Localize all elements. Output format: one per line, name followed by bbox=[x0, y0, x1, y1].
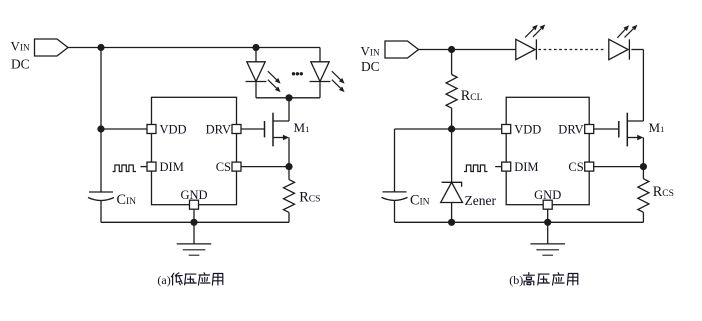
wire VIN to LED1 anode (right) bbox=[419, 49, 516, 51]
wire node B to RCL bbox=[451, 50, 453, 75]
svg-text:(b): (b) bbox=[509, 273, 523, 287]
PWM dimming signal symbol (right) bbox=[464, 165, 488, 172]
wire down to M1 drain (right) bbox=[642, 50, 644, 122]
zener DZ cathode bar bbox=[442, 182, 462, 187]
transistor M1 (left) bbox=[272, 113, 274, 147]
junction ground node (left) bbox=[190, 219, 197, 226]
svg-text:DRV: DRV bbox=[206, 123, 231, 137]
wire to VDD pin (left) bbox=[101, 128, 152, 130]
wire to RCS (right) bbox=[642, 167, 644, 179]
IC U1 (left controller) bbox=[152, 97, 237, 204]
pin GND (right IC) bbox=[543, 200, 552, 209]
resistor RCL bbox=[446, 75, 457, 109]
resistor RCS (right) bbox=[638, 179, 649, 213]
LED D3 (right string) bbox=[516, 39, 535, 59]
caption char 压 (a) bbox=[185, 274, 197, 285]
wire M1 drain lead (left) bbox=[288, 98, 290, 121]
junction ground node (right) bbox=[544, 219, 551, 226]
pin GND (left IC) bbox=[190, 200, 199, 209]
caption char 应 (a) bbox=[198, 273, 210, 285]
light arrow 1 of D3 bbox=[525, 29, 534, 38]
LED D4 (right string) bbox=[609, 39, 628, 59]
junction CS node (left) bbox=[285, 163, 292, 170]
wire down to CIN (right) bbox=[394, 129, 396, 192]
caption char 压 (b) bbox=[538, 274, 550, 285]
wire CIN to ground rail (left) bbox=[100, 201, 102, 222]
wire CS to source node (left) bbox=[241, 166, 289, 168]
svg-text:DIM: DIM bbox=[514, 160, 538, 174]
dashed wire LED chain bbox=[538, 49, 606, 51]
wire zener anode to rail bbox=[451, 203, 453, 223]
svg-text:DRV: DRV bbox=[558, 123, 583, 137]
svg-text:VDD: VDD bbox=[160, 123, 187, 137]
light arrow 1 of D1 bbox=[268, 71, 277, 80]
svg-text:DC: DC bbox=[361, 59, 380, 74]
zener DZ triangle bbox=[441, 182, 463, 202]
junction zener to rail bbox=[448, 219, 455, 226]
ground symbol (left) bbox=[193, 222, 195, 244]
junction CS node (right) bbox=[640, 163, 647, 170]
LED D2 (left string) bbox=[319, 48, 321, 62]
PWM dimming signal symbol (left) bbox=[113, 165, 137, 172]
capacitor CIN (right) bbox=[383, 191, 407, 193]
pin VDD (right IC) bbox=[502, 125, 511, 134]
svg-text:(a): (a) bbox=[157, 273, 170, 287]
caption char 用 (a) bbox=[212, 274, 222, 286]
wire LED cathode bus (left) bbox=[256, 97, 320, 99]
wire VDD node to zener cathode bbox=[451, 129, 453, 182]
resistor RCS (left) bbox=[284, 180, 295, 213]
light arrow 2 of D2 bbox=[332, 80, 341, 89]
capacitor CIN (left) bbox=[89, 191, 113, 193]
caption char 应 (b) bbox=[553, 273, 565, 285]
LED D1 (left string) bbox=[255, 48, 257, 62]
input connector VIN DC (right) bbox=[385, 41, 419, 58]
wire VIN to node A bbox=[68, 47, 101, 49]
wire stub to DIM (left) bbox=[141, 166, 148, 168]
svg-text:VDD: VDD bbox=[514, 123, 541, 137]
wire stub to DIM (right) bbox=[495, 166, 502, 168]
junction LED1 anode (left) bbox=[252, 44, 259, 51]
wire M1 source down (right) bbox=[642, 138, 644, 167]
wire left branch down to CIN bbox=[100, 48, 102, 193]
junction LED bus to M1 drain (left) bbox=[285, 94, 292, 101]
IC U2 (right controller) bbox=[506, 97, 589, 204]
wire M1 source down (left) bbox=[288, 138, 290, 167]
svg-text:CS: CS bbox=[568, 160, 583, 174]
pin VDD (left IC) bbox=[147, 125, 156, 134]
junction node B (right input) bbox=[448, 46, 455, 53]
pin DIM (right IC) bbox=[502, 162, 511, 171]
svg-text:Zener: Zener bbox=[465, 193, 497, 208]
wire top rail (left) bbox=[101, 47, 320, 49]
light arrow 2 of D4 bbox=[625, 29, 634, 38]
wire CIN to rail (right) bbox=[394, 201, 396, 222]
pin CS (right IC) bbox=[585, 162, 594, 171]
light arrow 2 of D1 bbox=[268, 80, 277, 89]
pin DIM (left IC) bbox=[147, 162, 156, 171]
transistor M1 (right) bbox=[626, 113, 628, 147]
svg-text:DIM: DIM bbox=[160, 160, 184, 174]
wire DRV to M1 gate (left) bbox=[241, 128, 265, 130]
wire LED4 cathode out bbox=[631, 49, 643, 51]
wire VDD node rail (right) bbox=[395, 128, 507, 130]
wire DRV to M1 gate (right) bbox=[594, 128, 619, 130]
pin DRV (left IC) bbox=[232, 125, 241, 134]
wire to RCS (left) bbox=[288, 167, 290, 180]
caption char 用 (b) bbox=[567, 274, 577, 286]
input connector VIN DC (left) bbox=[35, 39, 69, 56]
junction VDD node (left) bbox=[97, 125, 104, 132]
caption char 低 (a) bbox=[171, 273, 182, 285]
light arrow 1 of D2 bbox=[332, 71, 341, 80]
caption char 高 (b) bbox=[523, 273, 534, 286]
wire bottom rail (right) bbox=[395, 221, 644, 223]
wire GND pin to rail (left) bbox=[193, 209, 195, 222]
wire CS to source node (right) bbox=[594, 166, 644, 168]
wire RCS to rail (right) bbox=[642, 212, 644, 222]
wire RCL to VDD node bbox=[451, 108, 453, 129]
light arrow 1 of D4 bbox=[617, 29, 625, 38]
wire bottom rail (left) bbox=[101, 221, 289, 223]
svg-text:CS: CS bbox=[216, 160, 231, 174]
pin CS (left IC) bbox=[232, 162, 241, 171]
light arrow 2 of D3 bbox=[533, 28, 541, 36]
pin DRV (right IC) bbox=[585, 125, 594, 134]
wire RCS to rail (left) bbox=[288, 212, 290, 222]
node A junction (left input) bbox=[97, 44, 104, 51]
svg-text:DC: DC bbox=[11, 57, 30, 72]
junction VDD node (right) bbox=[448, 125, 455, 132]
ground symbol (right) bbox=[547, 222, 549, 244]
ellipsis dots between LEDs (left) bbox=[292, 72, 295, 75]
wire GND pin to rail (right) bbox=[547, 209, 549, 222]
